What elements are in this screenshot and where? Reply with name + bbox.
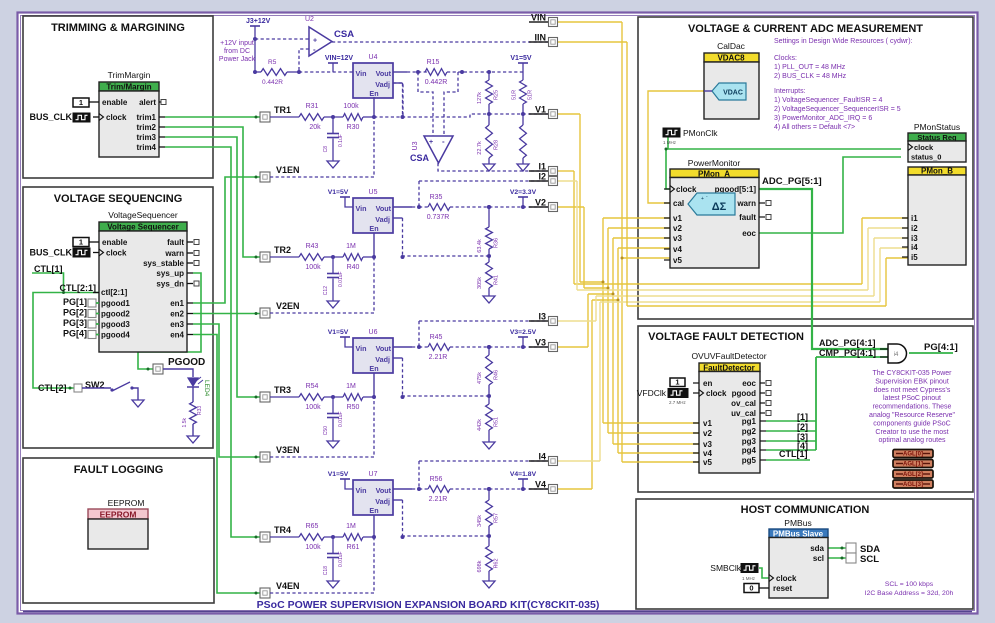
svg-text:VIN: VIN (531, 13, 546, 23)
svg-text:status_0: status_0 (911, 153, 941, 162)
svg-text:R43: R43 (306, 243, 319, 250)
svg-text:warn: warn (164, 249, 184, 258)
svg-text:TR2: TR2 (274, 245, 291, 255)
svg-text:warn: warn (736, 199, 756, 208)
svg-text:En: En (369, 89, 378, 98)
svg-text:I3: I3 (538, 312, 546, 322)
svg-text:VOLTAGE & CURRENT ADC MEASUREM: VOLTAGE & CURRENT ADC MEASUREMENT (688, 23, 923, 35)
svg-text:En: En (369, 224, 378, 233)
svg-text:I1: I1 (538, 162, 546, 172)
svg-text:R56: R56 (430, 476, 443, 483)
svg-text:R50: R50 (347, 404, 360, 411)
svg-text:C50: C50 (323, 426, 329, 435)
svg-text:J3+12V: J3+12V (246, 18, 271, 25)
svg-text:v1: v1 (673, 214, 682, 223)
svg-text:Vin: Vin (356, 204, 367, 213)
svg-text:0.01uF: 0.01uF (338, 271, 344, 287)
svg-text:1M: 1M (346, 243, 356, 250)
svg-text:C18: C18 (323, 566, 329, 575)
svg-text:R54: R54 (306, 383, 319, 390)
svg-text:0.1uF: 0.1uF (338, 134, 344, 147)
svg-text:R45: R45 (430, 334, 443, 341)
svg-text:eoc: eoc (742, 379, 756, 388)
svg-text:CTL[2:1]: CTL[2:1] (60, 283, 97, 293)
svg-text:CSA: CSA (334, 29, 354, 40)
svg-text:U3: U3 (412, 141, 419, 150)
svg-text:ΔΣ: ΔΣ (712, 201, 727, 213)
svg-text:trim3: trim3 (136, 133, 156, 142)
svg-text:CalDac: CalDac (717, 41, 746, 51)
svg-text:V3: V3 (535, 338, 546, 348)
svg-text:R36: R36 (494, 238, 500, 248)
svg-text:C8: C8 (323, 146, 329, 153)
svg-text:Vin: Vin (356, 344, 367, 353)
svg-text:ADC_PG[5:1]: ADC_PG[5:1] (762, 176, 822, 187)
svg-text:fault: fault (739, 213, 756, 222)
svg-text:optimal analog routes: optimal analog routes (879, 437, 946, 444)
svg-text:U5: U5 (369, 189, 378, 196)
svg-text:VoltageSequencer: VoltageSequencer (108, 210, 178, 220)
svg-text:PowerMonitor: PowerMonitor (688, 158, 741, 168)
svg-text:C12: C12 (323, 286, 329, 295)
svg-text:I4: I4 (538, 452, 546, 462)
svg-text:HOST COMMUNICATION: HOST COMMUNICATION (741, 504, 870, 516)
svg-text:AGL[0]: AGL[0] (903, 452, 923, 458)
svg-text:1) PLL_OUT = 48 MHz: 1) PLL_OUT = 48 MHz (774, 64, 846, 71)
svg-text:pgood: pgood (732, 389, 757, 398)
svg-text:R65: R65 (306, 523, 319, 530)
svg-text:100k: 100k (305, 404, 321, 411)
svg-text:20k: 20k (309, 124, 321, 131)
svg-text:+12V input: +12V input (220, 40, 254, 47)
svg-text:recommendations. These: recommendations. These (873, 404, 952, 411)
svg-text:0.01uF: 0.01uF (338, 411, 344, 427)
svg-text:R33: R33 (197, 406, 203, 415)
svg-text:clock: clock (676, 185, 697, 194)
svg-text:pg1: pg1 (742, 417, 757, 426)
svg-text:en2: en2 (170, 310, 184, 319)
svg-text:CTL[2]: CTL[2] (38, 383, 67, 393)
svg-text:-: - (313, 45, 316, 54)
svg-text:alert: alert (139, 98, 156, 107)
svg-text:I2C Base Address = 32d, 20h: I2C Base Address = 32d, 20h (865, 590, 954, 597)
svg-text:i4: i4 (894, 352, 899, 358)
svg-text:clock: clock (106, 113, 127, 122)
svg-text:clock: clock (106, 249, 127, 258)
svg-text:Vin: Vin (356, 69, 367, 78)
svg-text:ctl[2:1]: ctl[2:1] (101, 288, 128, 297)
svg-text:v4: v4 (673, 245, 682, 254)
svg-text:PMon_B: PMon_B (921, 167, 953, 176)
svg-text:clock: clock (706, 389, 727, 398)
svg-text:3) PowerMonitor_ADC_IRQ = 6: 3) PowerMonitor_ADC_IRQ = 6 (774, 115, 872, 122)
svg-text:en1: en1 (170, 299, 184, 308)
svg-text:V1EN: V1EN (276, 165, 300, 175)
svg-text:V3=2.5V: V3=2.5V (510, 329, 537, 336)
svg-text:Vout: Vout (376, 69, 392, 78)
svg-text:The CY8CKIT-035 Power: The CY8CKIT-035 Power (873, 370, 953, 377)
svg-text:EEPROM: EEPROM (100, 510, 137, 520)
svg-text:enable: enable (102, 98, 128, 107)
svg-text:V2EN: V2EN (276, 301, 300, 311)
svg-text:i1: i1 (911, 214, 918, 223)
svg-text:V3EN: V3EN (276, 445, 300, 455)
svg-text:En: En (369, 364, 378, 373)
svg-text:v4: v4 (703, 449, 712, 458)
svg-text:0.442R: 0.442R (262, 79, 283, 86)
svg-text:V4: V4 (535, 480, 546, 490)
svg-text:from DC: from DC (224, 48, 250, 55)
svg-text:sys_dn: sys_dn (156, 280, 184, 289)
svg-text:PG[2]: PG[2] (63, 308, 87, 318)
svg-text:PG[3]: PG[3] (63, 318, 87, 328)
svg-text:pg2: pg2 (742, 427, 757, 436)
svg-text:CTL[1]: CTL[1] (34, 264, 63, 274)
svg-text:PGOOD: PGOOD (168, 357, 205, 368)
svg-text:R28: R28 (494, 140, 500, 150)
svg-text:R35: R35 (430, 194, 443, 201)
svg-text:i3: i3 (911, 234, 918, 243)
svg-text:v2: v2 (673, 224, 682, 233)
svg-text:V2=3.3V: V2=3.3V (510, 189, 537, 196)
svg-text:TR3: TR3 (274, 385, 291, 395)
svg-text:LED4: LED4 (203, 380, 210, 397)
svg-text:Vout: Vout (376, 344, 392, 353)
svg-text:AGL[2]: AGL[2] (903, 472, 923, 478)
svg-text:PG[4]: PG[4] (63, 329, 87, 339)
svg-text:V1=5V: V1=5V (328, 189, 349, 196)
svg-text:345k: 345k (477, 515, 483, 527)
svg-text:2.7 MHz: 2.7 MHz (669, 400, 687, 405)
svg-text:0: 0 (749, 584, 753, 593)
svg-text:PMonStatus: PMonStatus (914, 122, 960, 132)
svg-text:V4EN: V4EN (276, 581, 300, 591)
svg-text:fault: fault (167, 238, 184, 247)
svg-text:475k: 475k (477, 372, 483, 384)
svg-text:v5: v5 (673, 256, 682, 265)
svg-text:-: - (442, 137, 445, 146)
svg-text:VDAC8: VDAC8 (717, 54, 745, 63)
svg-text:en4: en4 (170, 331, 184, 340)
svg-text:pgood1: pgood1 (101, 299, 130, 308)
svg-text:U6: U6 (369, 329, 378, 336)
svg-text:R5: R5 (268, 59, 277, 66)
svg-text:v1: v1 (703, 419, 712, 428)
svg-text:CTL[1]: CTL[1] (779, 449, 808, 459)
svg-text:V4=1.8V: V4=1.8V (510, 471, 537, 478)
svg-text:Settings in Design Wide Resour: Settings in Design Wide Resources ( cydw… (774, 38, 913, 45)
svg-text:scl: scl (813, 554, 824, 563)
svg-text:pg5: pg5 (742, 456, 757, 465)
svg-text:2) BUS_CLK = 48 MHz: 2) BUS_CLK = 48 MHz (774, 73, 847, 80)
svg-text:trim2: trim2 (136, 123, 156, 132)
svg-text:does not meet Cypress's: does not meet Cypress's (874, 387, 951, 394)
svg-text:TRIMMING & MARGINING: TRIMMING & MARGINING (51, 22, 185, 34)
svg-text:Vadj: Vadj (375, 497, 390, 506)
svg-text:SCL = 100 kbps: SCL = 100 kbps (885, 581, 934, 588)
svg-text:v3: v3 (673, 234, 682, 243)
svg-text:VOLTAGE SEQUENCING: VOLTAGE SEQUENCING (54, 193, 183, 205)
svg-text:0.01uF: 0.01uF (338, 551, 344, 567)
svg-text:51R: 51R (512, 90, 518, 100)
svg-text:PMBus: PMBus (784, 518, 811, 528)
svg-text:R51: R51 (494, 417, 500, 427)
svg-text:R57: R57 (494, 513, 500, 523)
svg-text:100k: 100k (305, 264, 321, 271)
svg-text:v2: v2 (703, 429, 712, 438)
svg-text:+: + (701, 196, 704, 202)
svg-text:Interrupts:: Interrupts: (774, 88, 806, 95)
svg-text:698k: 698k (477, 560, 483, 572)
svg-text:2.21R: 2.21R (429, 496, 448, 503)
svg-text:pg4: pg4 (742, 446, 757, 455)
svg-text:TrimMargin: TrimMargin (108, 70, 151, 80)
svg-text:R31: R31 (306, 103, 319, 110)
svg-text:VFDClk: VFDClk (637, 388, 667, 398)
svg-text:sys_up: sys_up (156, 269, 184, 278)
svg-text:R41: R41 (494, 275, 500, 285)
svg-text:1.5k: 1.5k (182, 418, 188, 428)
svg-text:eoc: eoc (742, 229, 756, 238)
svg-text:Voltage Sequencer: Voltage Sequencer (107, 223, 178, 232)
svg-text:trim4: trim4 (136, 143, 156, 152)
svg-text:FAULT LOGGING: FAULT LOGGING (74, 464, 164, 476)
svg-text:EEPROM: EEPROM (108, 498, 145, 508)
svg-text:Trim/Margin: Trim/Margin (106, 83, 151, 92)
svg-text:IIN: IIN (534, 33, 546, 43)
svg-text:Creator to use the most: Creator to use the most (875, 429, 948, 436)
svg-text:Clocks:: Clocks: (774, 55, 797, 62)
svg-text:22.7k: 22.7k (477, 141, 483, 155)
svg-text:442k: 442k (477, 419, 483, 431)
svg-text:R62: R62 (494, 558, 500, 568)
svg-text:V1=5V: V1=5V (328, 329, 349, 336)
svg-text:Vadj: Vadj (375, 80, 390, 89)
svg-text:Supervision EBK pinout: Supervision EBK pinout (875, 378, 949, 385)
svg-text:PG[4:1]: PG[4:1] (924, 342, 958, 353)
svg-text:R61: R61 (347, 544, 360, 551)
svg-text:components guide PSoC: components guide PSoC (873, 420, 950, 427)
svg-text:1 MHz: 1 MHz (663, 140, 677, 145)
svg-text:I2: I2 (538, 172, 546, 182)
svg-text:U7: U7 (369, 471, 378, 478)
svg-text:100k: 100k (343, 103, 359, 110)
svg-text:U4: U4 (369, 54, 378, 61)
svg-text:100k: 100k (305, 544, 321, 551)
svg-text:v5: v5 (703, 458, 712, 467)
svg-text:R40: R40 (347, 264, 360, 271)
svg-text:+: + (313, 38, 317, 45)
svg-text:+: + (429, 139, 433, 146)
svg-text:V1: V1 (535, 105, 546, 115)
svg-text:latest PSoC pinout: latest PSoC pinout (883, 395, 941, 402)
svg-text:OVUVFaultDetector: OVUVFaultDetector (691, 351, 766, 361)
svg-text:en3: en3 (170, 320, 184, 329)
svg-text:VIN=12V: VIN=12V (325, 55, 354, 62)
svg-text:cal: cal (673, 199, 684, 208)
svg-text:AGL[3]: AGL[3] (903, 482, 923, 488)
svg-text:i4: i4 (911, 243, 918, 252)
svg-text:i5: i5 (911, 253, 918, 262)
svg-text:V2: V2 (535, 198, 546, 208)
svg-text:sda: sda (810, 544, 824, 553)
svg-text:pgood2: pgood2 (101, 310, 130, 319)
svg-text:1: 1 (79, 238, 83, 247)
svg-text:305k: 305k (477, 277, 483, 289)
svg-text:Vout: Vout (376, 486, 392, 495)
svg-text:pg3: pg3 (742, 437, 757, 446)
svg-text:R30: R30 (347, 124, 360, 131)
svg-text:sys_stable: sys_stable (143, 259, 184, 268)
svg-text:clock: clock (914, 143, 934, 152)
svg-text:Power Jack: Power Jack (219, 56, 256, 63)
svg-text:U2: U2 (305, 16, 314, 23)
svg-text:127k: 127k (477, 92, 483, 104)
svg-text:1M: 1M (346, 523, 356, 530)
svg-text:PMonClk: PMonClk (683, 128, 718, 138)
svg-text:SCL: SCL (860, 554, 879, 565)
svg-text:i2: i2 (911, 224, 918, 233)
svg-text:4) All others = Default <7>: 4) All others = Default <7> (774, 124, 855, 131)
svg-text:1) VoltageSequencer_FaultISR =: 1) VoltageSequencer_FaultISR = 4 (774, 97, 882, 104)
svg-text:1: 1 (79, 98, 83, 107)
svg-text:BUS_CLK: BUS_CLK (29, 112, 72, 122)
svg-text:enable: enable (102, 238, 128, 247)
svg-text:1M: 1M (346, 383, 356, 390)
svg-text:51R: 51R (528, 90, 534, 100)
svg-text:1 MHz: 1 MHz (742, 576, 756, 581)
svg-text:trim1: trim1 (136, 113, 156, 122)
svg-text:CMP_PG[4:1]: CMP_PG[4:1] (819, 348, 876, 358)
svg-text:TR4: TR4 (274, 525, 291, 535)
svg-text:Vin: Vin (356, 486, 367, 495)
svg-text:reset: reset (773, 584, 792, 593)
svg-text:[1]: [1] (797, 412, 808, 422)
svg-text:ov_cal: ov_cal (731, 399, 756, 408)
svg-text:R46: R46 (494, 370, 500, 380)
svg-text:PSoC POWER SUPERVISION EXPANSI: PSoC POWER SUPERVISION EXPANSION BOARD K… (257, 599, 600, 611)
svg-text:63.4k: 63.4k (477, 239, 483, 253)
svg-text:ADC_PG[4:1]: ADC_PG[4:1] (819, 338, 876, 348)
svg-text:2.21R: 2.21R (429, 354, 448, 361)
svg-text:Vout: Vout (376, 204, 392, 213)
svg-text:0.442R: 0.442R (425, 79, 448, 86)
svg-text:V1=5V: V1=5V (328, 471, 349, 478)
svg-text:R25: R25 (494, 90, 500, 100)
svg-text:CSA: CSA (410, 153, 430, 163)
svg-text:SMBClk: SMBClk (710, 563, 741, 573)
svg-text:En: En (369, 506, 378, 515)
svg-text:R15: R15 (427, 59, 440, 66)
svg-text:2) VoltageSequencer_SequencerI: 2) VoltageSequencer_SequencerISR = 5 (774, 106, 901, 113)
svg-text:BUS_CLK: BUS_CLK (29, 248, 72, 258)
svg-text:0.737R: 0.737R (427, 214, 450, 221)
svg-text:Vadj: Vadj (375, 355, 390, 364)
svg-text:analog "Resource Reserve": analog "Resource Reserve" (869, 412, 955, 419)
svg-text:Vadj: Vadj (375, 215, 390, 224)
svg-text:PG[1]: PG[1] (63, 297, 87, 307)
svg-text:pgood4: pgood4 (101, 331, 130, 340)
svg-text:clock: clock (776, 574, 797, 583)
svg-text:pgood3: pgood3 (101, 320, 130, 329)
svg-text:VDAC: VDAC (723, 90, 743, 97)
svg-text:TR1: TR1 (274, 105, 291, 115)
svg-text:1: 1 (675, 378, 679, 387)
svg-text:VOLTAGE FAULT DETECTION: VOLTAGE FAULT DETECTION (648, 331, 804, 343)
svg-text:v3: v3 (703, 440, 712, 449)
svg-text:[2]: [2] (797, 422, 808, 432)
svg-text:V1=5V: V1=5V (510, 55, 532, 62)
svg-text:AGL[1]: AGL[1] (903, 462, 923, 468)
svg-text:en: en (703, 379, 712, 388)
